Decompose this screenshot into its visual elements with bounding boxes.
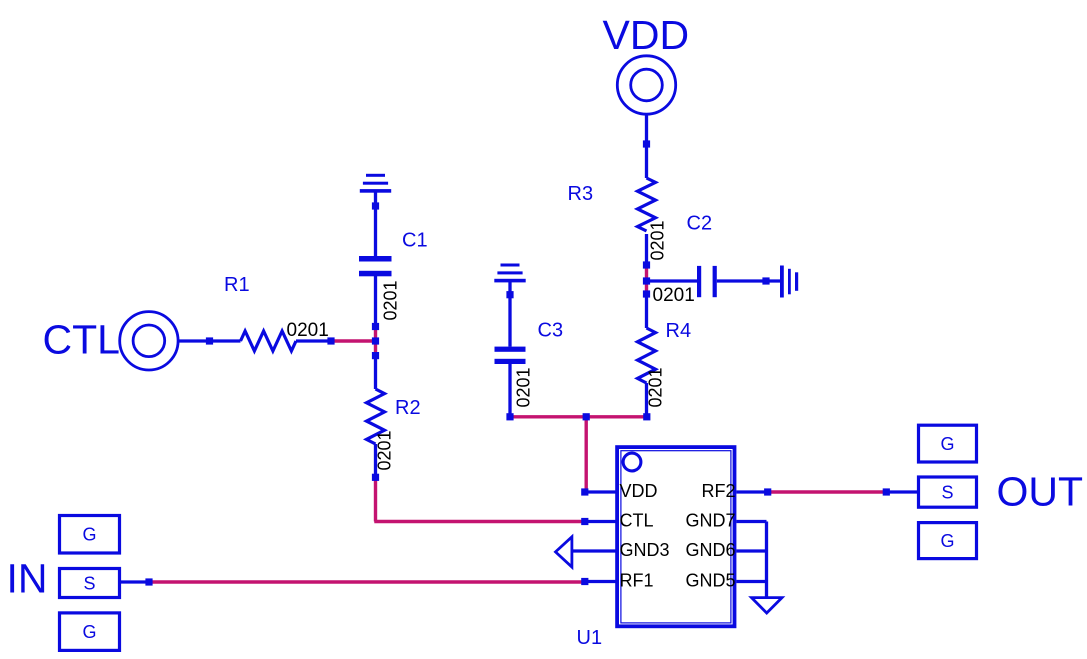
svg-text:G: G — [940, 434, 954, 454]
svg-text:C1: C1 — [402, 230, 428, 252]
svg-text:OUT: OUT — [997, 468, 1084, 514]
svg-text:0201: 0201 — [648, 220, 668, 260]
svg-text:GND7: GND7 — [685, 510, 735, 530]
svg-text:C3: C3 — [538, 320, 564, 342]
svg-text:0201: 0201 — [653, 285, 695, 306]
svg-text:C2: C2 — [687, 213, 713, 235]
svg-text:S: S — [941, 483, 953, 503]
svg-text:R4: R4 — [666, 320, 692, 342]
svg-text:G: G — [82, 525, 96, 545]
svg-text:GND5: GND5 — [685, 570, 735, 590]
svg-text:R3: R3 — [568, 183, 594, 205]
svg-text:VDD: VDD — [603, 12, 690, 58]
svg-text:R1: R1 — [224, 274, 250, 296]
svg-text:IN: IN — [7, 556, 48, 602]
svg-text:VDD: VDD — [620, 481, 658, 501]
svg-text:GND6: GND6 — [685, 540, 735, 560]
svg-text:0201: 0201 — [381, 280, 401, 320]
svg-text:G: G — [82, 622, 96, 642]
svg-text:U1: U1 — [577, 627, 603, 649]
svg-text:0201: 0201 — [287, 320, 329, 341]
svg-text:G: G — [940, 531, 954, 551]
svg-text:GND3: GND3 — [620, 540, 670, 560]
svg-text:0201: 0201 — [514, 367, 534, 407]
svg-text:CTL: CTL — [43, 316, 120, 362]
svg-text:S: S — [83, 573, 95, 593]
svg-text:0201: 0201 — [646, 367, 666, 407]
svg-text:0201: 0201 — [375, 430, 395, 470]
svg-text:CTL: CTL — [620, 510, 654, 530]
svg-text:R2: R2 — [395, 397, 421, 419]
svg-text:RF1: RF1 — [620, 570, 654, 590]
svg-text:RF2: RF2 — [701, 481, 735, 501]
